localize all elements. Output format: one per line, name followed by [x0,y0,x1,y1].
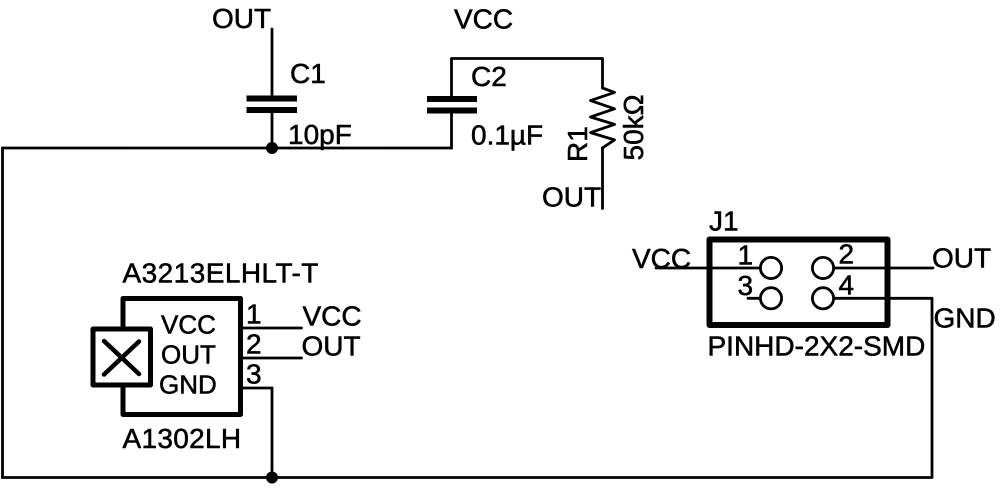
wire J1 pin 2 to OUT [834,267,933,270]
wire bottom rail [3,476,932,479]
J1 pad 2 [812,257,833,278]
wire R1 bottom [601,148,604,209]
svg-text:C2: C2 [471,61,507,92]
svg-text:1: 1 [738,240,754,271]
pin number 4 (J1) [839,270,855,301]
label C1 [290,58,326,89]
J1 pad 1 [760,257,781,278]
node OUT (net label at IC pin 2) [302,331,361,362]
label C2 [471,61,507,92]
J1 pad 3 [760,288,781,309]
label 10pF [288,119,352,150]
svg-text:3: 3 [738,270,754,301]
node OUT (net label at C1 top) [212,3,271,34]
pin name VCC (inside IC) [161,310,216,340]
junction dot at C1 bottom [266,142,278,154]
wire horizontal rail [3,147,452,150]
label 0.1uF [471,120,543,151]
wire IC pin 3 to ground rail [271,388,274,478]
wire C1 top [271,29,274,96]
svg-text:R1: R1 [562,126,593,162]
resistor R1 zigzag [591,88,615,148]
pin number 3 [246,359,262,390]
pin name GND (inside IC) [159,370,217,400]
svg-text:VCC: VCC [161,310,216,340]
svg-text:10pF: 10pF [288,119,352,150]
connector J1 body [710,240,888,326]
svg-text:VCC: VCC [303,301,362,332]
svg-text:VCC: VCC [454,4,513,35]
pin 3 line of IC [243,387,272,390]
svg-text:OUT: OUT [542,182,601,213]
svg-text:50kΩ: 50kΩ [618,94,649,160]
capacitor C2 [427,96,477,114]
label 50kOhm (rotated) [618,94,649,160]
node VCC (net label at J1 pin 1) [632,243,691,274]
svg-text:1: 1 [246,299,262,330]
J1 pad 4 [812,288,833,309]
wire C2 bottom [450,114,453,148]
pin number 2 (J1) [839,239,855,270]
wire VCC distribution [452,59,603,97]
label A1302LH [123,423,242,454]
wire left vertical [1,148,4,478]
svg-text:A3213ELHLT-T: A3213ELHLT-T [123,258,319,289]
capacitor C1 [247,96,298,114]
sensor X mark [104,341,139,375]
svg-text:GND: GND [159,370,217,400]
label PINHD-2X2-SMD [708,331,926,362]
svg-text:OUT: OUT [932,243,991,274]
svg-text:OUT: OUT [161,340,216,370]
svg-text:OUT: OUT [302,331,361,362]
junction dot at ground rail [266,472,278,484]
svg-text:A1302LH: A1302LH [123,423,242,454]
pin number 2 [246,329,262,360]
svg-text:3: 3 [246,359,262,390]
svg-text:GND: GND [934,303,996,334]
svg-text:2: 2 [246,329,262,360]
svg-text:PINHD-2X2-SMD: PINHD-2X2-SMD [708,331,926,362]
sensor symbol box with X [93,329,151,385]
pin 1 line of IC [243,327,302,330]
IC U1 A3213ELHLT-T body [123,299,241,415]
wire J1 pin 4 to ground rail [834,298,932,477]
pin number 1 (J1) [738,240,754,271]
pin number 1 [246,299,262,330]
wire VCC to J1 pin 1 [656,267,760,270]
label A3213ELHLT-T [123,258,319,289]
node GND (net label at J1 pin 4) [934,303,996,334]
node VCC (net label at C2 top) [454,4,513,35]
wire C1 bottom [271,113,274,148]
svg-text:C1: C1 [290,58,326,89]
connector J1 label [709,206,739,237]
pin number 3 (J1) [738,270,754,301]
pin name OUT (inside IC) [161,340,216,370]
wire stub J1 pin 3 [748,297,760,300]
label R1 (rotated) [562,126,593,162]
node OUT (net label at J1 pin 2) [932,243,991,274]
node OUT (net label at R1 bottom) [542,182,601,213]
node VCC (net label at IC pin 1) [303,301,362,332]
svg-text:0.1µF: 0.1µF [471,120,543,151]
svg-text:J1: J1 [709,206,739,237]
svg-text:2: 2 [839,239,855,270]
svg-text:4: 4 [839,270,855,301]
svg-text:OUT: OUT [212,3,271,34]
pin 2 line of IC [243,357,302,360]
